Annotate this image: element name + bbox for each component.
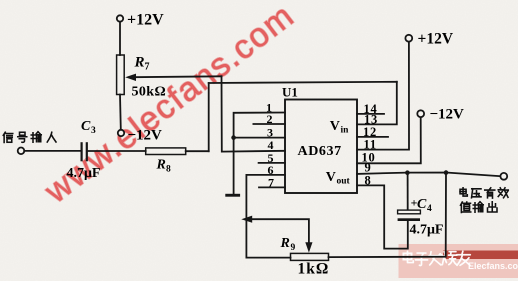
svg-text:7: 7 [145, 62, 150, 73]
wire pin 14 stub [357, 113, 384, 115]
svg-text:−12V: −12V [128, 128, 163, 144]
svg-text:2: 2 [267, 112, 273, 126]
capacitor C4 plates [398, 210, 421, 214]
terminal -12V (left) [118, 130, 124, 136]
svg-text:−12V: −12V [430, 107, 465, 123]
wire pin 7 stub [259, 186, 285, 188]
R9 wiper arrowhead down [305, 242, 312, 252]
wire C4 top lead [407, 173, 409, 210]
wire pin 2 stub [253, 123, 285, 125]
elecfans logo band [399, 244, 518, 278]
wire pin 9 to output [357, 173, 500, 177]
potentiometer R9 body [291, 253, 329, 260]
wire riser up to top rail [208, 83, 210, 151]
svg-text:V: V [330, 119, 340, 134]
svg-text:8: 8 [365, 173, 372, 187]
svg-text:11: 11 [364, 138, 377, 152]
svg-text:1kΩ: 1kΩ [298, 261, 330, 278]
svg-text:8: 8 [166, 165, 171, 175]
wire pin 8 down around to C4 bottom [357, 185, 408, 248]
wire R8 to riser [186, 150, 209, 152]
pin numbers right 14-8 [362, 102, 379, 188]
wire pin 5 stub [259, 162, 285, 164]
svg-text:+12V: +12V [127, 12, 164, 29]
svg-text:4.7μF: 4.7μF [67, 166, 101, 181]
wire top rail to right [209, 82, 397, 83]
wire wiper vertical down to pin4 line [222, 76, 286, 151]
node R9 junction [444, 170, 449, 175]
terminal -12V (right) [417, 110, 424, 117]
svg-text:out: out [337, 176, 351, 186]
node junction on pin3/ground bus [231, 135, 236, 140]
svg-text:R: R [134, 55, 145, 71]
wire pin 10 to -12V [357, 117, 421, 163]
svg-text:3: 3 [91, 126, 96, 136]
svg-text:4.7μF: 4.7μF [410, 223, 444, 238]
wire R9 right to pin9 node [329, 173, 447, 258]
terminal output [500, 173, 507, 180]
svg-text:C: C [417, 197, 427, 212]
svg-text:+12V: +12V [418, 31, 454, 48]
wire pin 11 to +12V [357, 42, 409, 150]
R9 wiper arrow wire [252, 219, 309, 243]
wire pin 6 down to R9 [246, 175, 290, 258]
op-amp U1 AD637 body [285, 100, 357, 194]
pin numbers left 1-7 [266, 101, 274, 190]
svg-text:50kΩ: 50kΩ [132, 85, 167, 100]
R7 wiper arrow wire [133, 75, 222, 78]
terminal +12V (right) [405, 35, 412, 42]
wire input to C3 [24, 150, 80, 152]
logo 电子发烧友 white glyphs [403, 251, 470, 265]
svg-text:9: 9 [291, 243, 296, 253]
label 信号输入 (signal input) [3, 132, 56, 143]
R9 wiper arrowhead left [241, 216, 252, 223]
node C4 top junction [405, 170, 410, 175]
svg-text:U1: U1 [282, 85, 298, 100]
svg-text:7: 7 [268, 175, 274, 189]
logo dark red smear [443, 251, 518, 260]
svg-text:Elecfans.com: Elecfans.com [468, 261, 518, 271]
ground [225, 194, 240, 197]
wire pin 12 stub [357, 136, 388, 138]
wire C3 to R8 [88, 150, 146, 152]
R7 wiper arrowhead left [125, 74, 136, 81]
svg-text:C: C [81, 119, 91, 134]
wire drop to pin 13 [357, 82, 397, 125]
wire pin 1 from ground bus [234, 113, 285, 194]
svg-text:R: R [156, 158, 166, 173]
capacitor C3 plates [80, 143, 82, 160]
svg-text:AD637: AD637 [298, 144, 342, 159]
wire R7 bottom to -12V terminal [119, 95, 122, 130]
svg-text:R: R [280, 236, 290, 251]
svg-text:4: 4 [427, 204, 432, 214]
wire +12V to R7 top [119, 22, 121, 55]
potentiometer R7 body [117, 55, 125, 95]
terminal signal input [18, 148, 25, 155]
terminal +12V (left) [117, 15, 123, 21]
resistor R8 body [146, 148, 186, 155]
svg-text:in: in [341, 126, 350, 136]
svg-text:V: V [326, 170, 336, 185]
wire pin 3 from ground bus [234, 137, 285, 139]
label 电压有效值输出 (RMS voltage output) [460, 188, 508, 213]
